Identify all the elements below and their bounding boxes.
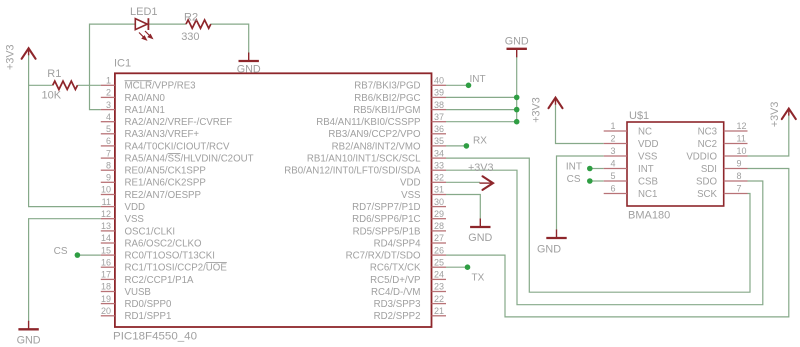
wire +3V3 to R1 junction and IC1 VDD pin 11 xyxy=(29,54,101,207)
wire GND rail vertical (top right) xyxy=(516,57,518,122)
pin 4 INT xyxy=(604,168,627,170)
svg-text:RB1/AN10/INT1/SCK/SCL: RB1/AN10/INT1/SCK/SCL xyxy=(307,154,421,165)
pin 11 VDD xyxy=(101,206,115,208)
svg-text:37: 37 xyxy=(434,112,444,122)
svg-text:RA5/AN4/SS/HLVDIN/C2OUT: RA5/AN4/SS/HLVDIN/C2OUT xyxy=(125,154,254,165)
svg-text:GND: GND xyxy=(17,335,41,347)
power +3V3 at U$1 VDDIO xyxy=(769,102,796,128)
svg-text:VDD: VDD xyxy=(125,202,145,213)
svg-text:28: 28 xyxy=(434,221,444,231)
svg-text:5: 5 xyxy=(106,124,111,134)
svg-text:18: 18 xyxy=(101,282,111,292)
resistor R1 10K xyxy=(42,68,78,102)
svg-text:RA1/AN1: RA1/AN1 xyxy=(125,105,165,116)
svg-text:22: 22 xyxy=(434,294,444,304)
pin 2 RA0/AN0 xyxy=(101,96,115,98)
svg-text:RA3/AN3/VREF+: RA3/AN3/VREF+ xyxy=(125,129,200,140)
svg-text:10: 10 xyxy=(737,146,747,156)
svg-text:36: 36 xyxy=(434,124,444,134)
svg-text:RB5/KBI1/PGM: RB5/KBI1/PGM xyxy=(353,105,420,116)
svg-text:RB4/AN11/KBI0/CSSPP: RB4/AN11/KBI0/CSSPP xyxy=(316,117,420,128)
svg-text:NC: NC xyxy=(638,126,652,137)
svg-text:4: 4 xyxy=(610,159,615,169)
svg-text:VSS: VSS xyxy=(401,190,421,201)
pin 30 RD7/SPP7/P1D xyxy=(432,206,447,208)
pin 6 RA4/T0CKI/CIOUT/RCV xyxy=(101,145,115,147)
wire +3V3 junction to R1 left terminal xyxy=(29,84,53,86)
svg-text:16: 16 xyxy=(101,257,111,267)
ground GND at U$1 VSS xyxy=(537,230,567,256)
pin 13 OSC1/CLKI xyxy=(101,230,115,232)
pin 23 RC4/D-/VM xyxy=(432,291,447,293)
wire LED1 cathode to R2 xyxy=(149,23,186,25)
pin 9 SDI xyxy=(724,168,748,170)
svg-text:SDO: SDO xyxy=(696,176,717,187)
svg-text:10K: 10K xyxy=(42,90,62,102)
pin 3 VSS xyxy=(604,155,627,157)
svg-text:8: 8 xyxy=(737,171,742,181)
svg-text:12: 12 xyxy=(737,121,747,131)
pin 10 VDDIO xyxy=(724,155,748,157)
svg-text:20: 20 xyxy=(101,306,111,316)
power +3V3 top left xyxy=(5,44,36,70)
svg-text:VSS: VSS xyxy=(638,151,658,162)
svg-text:7: 7 xyxy=(106,148,111,158)
svg-text:CS: CS xyxy=(567,174,581,185)
wire IC1 pin 3 RA1 to LED1 anode xyxy=(90,24,136,110)
svg-text:RB7/BKI3/PGD: RB7/BKI3/PGD xyxy=(354,81,420,92)
pin 26 RC7/RX/DT/SDO xyxy=(432,254,447,256)
svg-text:11: 11 xyxy=(737,134,746,144)
node CS at IC1 pin 15 xyxy=(54,246,81,258)
svg-text:VUSB: VUSB xyxy=(125,287,151,298)
svg-text:8: 8 xyxy=(106,160,111,170)
svg-text:MCLR/VPP/RE3: MCLR/VPP/RE3 xyxy=(125,81,196,92)
svg-text:VDDIO: VDDIO xyxy=(686,151,717,162)
svg-text:RA4/T0CKI/CIOUT/RCV: RA4/T0CKI/CIOUT/RCV xyxy=(125,141,231,152)
wire net CS at U$1 pin 5 CSB xyxy=(590,180,604,182)
svg-text:RD2/SPP2: RD2/SPP2 xyxy=(374,311,421,322)
pin 40 RB7/BKI3/PGD xyxy=(432,84,447,86)
pin 8 SDO xyxy=(724,180,748,182)
svg-text:RC4/D-/VM: RC4/D-/VM xyxy=(371,287,421,298)
svg-text:RD6/SPP6/P1C: RD6/SPP6/P1C xyxy=(352,214,420,225)
ground GND under R2 xyxy=(237,53,261,76)
svg-text:7: 7 xyxy=(737,184,742,194)
overline MCLR pin 1 xyxy=(125,80,152,82)
svg-text:TX: TX xyxy=(472,273,485,284)
pin 10 RE2/AN7/OESPP xyxy=(101,194,115,196)
svg-text:39: 39 xyxy=(434,88,444,98)
svg-text:VSS: VSS xyxy=(125,214,145,225)
IC U$1 BMA180 xyxy=(604,110,748,222)
svg-text:330: 330 xyxy=(181,31,199,43)
svg-text:RD4/SPP4: RD4/SPP4 xyxy=(374,238,421,249)
svg-text:RX: RX xyxy=(473,136,487,147)
svg-text:1: 1 xyxy=(106,76,111,86)
wire net RX at IC1 pin 35 xyxy=(446,145,466,147)
svg-text:OSC1/CLKI: OSC1/CLKI xyxy=(125,226,176,237)
pin 17 RC2/CCP1/P1A xyxy=(101,278,115,280)
svg-text:3: 3 xyxy=(610,146,615,156)
power +3V3 at U$1 VDD xyxy=(531,97,563,123)
svg-text:RD3/SPP3: RD3/SPP3 xyxy=(374,299,421,310)
svg-text:RD7/SPP7/P1D: RD7/SPP7/P1D xyxy=(352,202,420,213)
pin 9 RE1/AN6/CK2SPP xyxy=(101,181,115,183)
svg-text:32: 32 xyxy=(434,173,444,183)
svg-text:2: 2 xyxy=(106,88,111,98)
svg-text:RE1/AN6/CK2SPP: RE1/AN6/CK2SPP xyxy=(125,178,206,189)
svg-text:NC1: NC1 xyxy=(638,189,657,200)
LED LED1 xyxy=(130,6,158,40)
pin 1 NC xyxy=(604,130,627,132)
svg-text:17: 17 xyxy=(101,270,111,280)
svg-text:RD1/SPP1: RD1/SPP1 xyxy=(125,311,172,322)
svg-text:3: 3 xyxy=(106,100,111,110)
svg-text:+3V3: +3V3 xyxy=(5,44,17,70)
svg-text:RB0/AN12/INT0/LFT0/SDI/SDA: RB0/AN12/INT0/LFT0/SDI/SDA xyxy=(284,166,421,177)
pin 5 RA3/AN3/VREF+ xyxy=(101,133,115,135)
svg-text:INT: INT xyxy=(638,164,654,175)
svg-text:6: 6 xyxy=(610,184,615,194)
pin 12 NC3 xyxy=(724,130,748,132)
svg-text:33: 33 xyxy=(434,160,444,170)
svg-text:GND: GND xyxy=(468,232,492,244)
svg-text:VDD: VDD xyxy=(638,139,658,150)
svg-text:RA0/AN0: RA0/AN0 xyxy=(125,93,166,104)
pin 20 RD1/SPP1 xyxy=(101,315,115,317)
svg-text:27: 27 xyxy=(434,233,444,243)
pin 11 NC2 xyxy=(724,143,748,145)
svg-text:RA6/OSC2/CLKO: RA6/OSC2/CLKO xyxy=(125,238,202,249)
svg-text:RB6/KBI2/PGC: RB6/KBI2/PGC xyxy=(354,93,420,104)
pin 27 RD4/SPP4 xyxy=(432,242,447,244)
wire net INT at U$1 pin 4 xyxy=(590,168,604,170)
svg-text:26: 26 xyxy=(434,245,444,255)
junction at pin 38 GND rail xyxy=(514,107,520,113)
wire IC1 pin 38 to GND rail xyxy=(446,109,517,111)
pin 16 RC1/T1OSI/CCP2/UOE xyxy=(101,266,115,268)
pin 35 RB2/AN8/INT2/VMO xyxy=(432,145,447,147)
svg-text:U$1: U$1 xyxy=(629,110,649,122)
svg-text:14: 14 xyxy=(101,233,111,243)
svg-text:CS: CS xyxy=(54,246,68,257)
svg-text:RD0/SPP0: RD0/SPP0 xyxy=(125,299,172,310)
svg-text:INT: INT xyxy=(470,74,486,85)
junction at pin 39 GND rail xyxy=(514,95,520,101)
ground GND at IC1 pin 31 xyxy=(468,219,492,245)
IC IC1 PIC18F4550_40 xyxy=(101,58,446,343)
svg-text:23: 23 xyxy=(434,282,444,292)
wire IC1 VSS pin 12 to GND xyxy=(29,219,101,322)
svg-text:+3V3: +3V3 xyxy=(468,162,494,174)
svg-text:10: 10 xyxy=(101,185,111,195)
pin 37 RB4/AN11/KBI0/CSSPP xyxy=(432,121,447,123)
wire R2 to GND xyxy=(211,24,249,53)
pin 38 RB5/KBI1/PGM xyxy=(432,109,447,111)
svg-text:34: 34 xyxy=(434,148,444,158)
ground GND top right rail xyxy=(505,35,529,57)
pin 1 MCLR/VPP/RE3 xyxy=(101,84,115,86)
pin 28 RD5/SPP5/P1B xyxy=(432,230,447,232)
pin 2 VDD xyxy=(604,143,627,145)
junction at pin 37 GND rail xyxy=(514,119,520,125)
svg-text:11: 11 xyxy=(102,197,111,207)
pin 34 RB1/AN10/INT1/SCK/SCL xyxy=(432,157,447,159)
pin 4 RA2/AN2/VREF-/CVREF xyxy=(101,121,115,123)
wire IC1 VSS pin 31 to GND xyxy=(446,195,480,220)
pin 33 RB0/AN12/INT0/LFT0/SDI/SDA xyxy=(432,169,447,171)
svg-text:31: 31 xyxy=(434,185,444,195)
svg-text:RC1/T1OSI/CCP2/UOE: RC1/T1OSI/CCP2/UOE xyxy=(125,263,228,274)
wire net TX at IC1 pin 25 xyxy=(446,266,468,268)
svg-text:13: 13 xyxy=(101,221,111,231)
svg-text:30: 30 xyxy=(434,197,444,207)
svg-text:35: 35 xyxy=(434,136,444,146)
pin 8 RE0/AN5/CK1SPP xyxy=(101,169,115,171)
pin 7 RA5/AN4/SS/HLVDIN/C2OUT xyxy=(101,157,115,159)
svg-text:RC6/TX/CK: RC6/TX/CK xyxy=(370,263,421,274)
svg-text:21: 21 xyxy=(434,306,444,316)
svg-text:4: 4 xyxy=(106,112,111,122)
wire R1 right terminal to IC1 pin 1 MCLR xyxy=(78,84,101,86)
svg-text:19: 19 xyxy=(101,294,111,304)
svg-text:RA2/AN2/VREF-/CVREF: RA2/AN2/VREF-/CVREF xyxy=(125,117,233,128)
pin 39 RB6/KBI2/PGC xyxy=(432,96,447,98)
node INT at U$1 pin 4 xyxy=(566,162,593,173)
wire IC1 VDD pin 32 to +3V3 xyxy=(446,181,480,183)
node CS at U$1 pin 5 xyxy=(567,174,593,185)
node INT at IC1 pin 40 xyxy=(466,74,486,88)
wire U$1 VSS pin 3 to GND xyxy=(557,156,604,230)
svg-text:NC2: NC2 xyxy=(698,139,717,150)
wire SDI net: IC1 pin 33 to U$1 pin 8 SDO xyxy=(446,170,763,305)
wire IC1 pin 39 to GND rail xyxy=(446,96,517,98)
svg-text:29: 29 xyxy=(434,209,444,219)
svg-text:INT: INT xyxy=(566,162,582,173)
wire IC1 pin 37 to GND rail xyxy=(446,121,517,123)
svg-text:25: 25 xyxy=(434,257,444,267)
svg-text:BMA180: BMA180 xyxy=(628,210,670,222)
svg-text:RC7/RX/DT/SDO: RC7/RX/DT/SDO xyxy=(346,251,421,262)
svg-text:+3V3: +3V3 xyxy=(531,97,543,123)
overline UOE pin 16 xyxy=(206,262,227,264)
svg-text:1: 1 xyxy=(610,121,615,131)
svg-text:40: 40 xyxy=(434,76,444,86)
svg-text:24: 24 xyxy=(434,270,444,280)
pin 36 RB3/AN9/CCP2/VPO xyxy=(432,133,447,135)
svg-text:SCK: SCK xyxy=(697,189,717,200)
pin 31 VSS xyxy=(432,194,447,196)
svg-text:RE2/AN7/OESPP: RE2/AN7/OESPP xyxy=(125,190,201,201)
svg-text:9: 9 xyxy=(106,173,111,183)
svg-text:+3V3: +3V3 xyxy=(769,102,781,128)
pin 18 VUSB xyxy=(101,291,115,293)
wire SDO net: IC1 pin 26 to U$1 pin 9 SDI xyxy=(446,169,789,317)
svg-text:R1: R1 xyxy=(47,68,61,80)
pin 32 VDD xyxy=(432,181,447,183)
svg-text:RC2/CCP1/P1A: RC2/CCP1/P1A xyxy=(125,275,194,286)
pin 12 VSS xyxy=(101,218,115,220)
svg-text:PIC18F4550_40: PIC18F4550_40 xyxy=(113,331,197,343)
pin 24 RC5/D+/VP xyxy=(432,278,447,280)
svg-text:GND: GND xyxy=(505,35,529,47)
power +3V3 at IC1 VDD pin 32 (pointing right) xyxy=(468,162,494,190)
svg-text:IC1: IC1 xyxy=(114,58,131,70)
svg-text:RD5/SPP5/P1B: RD5/SPP5/P1B xyxy=(353,226,421,237)
wire SCK net: IC1 pin 34 to U$1 pin 7 SCK xyxy=(446,158,750,292)
pin 7 SCK xyxy=(724,193,748,195)
wire net CS to IC1 pin 15 xyxy=(77,254,100,256)
pin 29 RD6/SPP6/P1C xyxy=(432,218,447,220)
wire U$1 VDDIO pin 10 to +3V3 xyxy=(748,114,789,156)
svg-text:RE0/AN5/CK1SPP: RE0/AN5/CK1SPP xyxy=(125,166,206,177)
svg-text:RB3/AN9/CCP2/VPO: RB3/AN9/CCP2/VPO xyxy=(328,129,421,140)
svg-text:RC0/T1OSO/T13CKI: RC0/T1OSO/T13CKI xyxy=(125,251,215,262)
wire net INT at IC1 pin 40 xyxy=(446,84,469,86)
pin 15 RC0/T1OSO/T13CKI xyxy=(101,254,115,256)
ground GND bottom left xyxy=(17,321,41,347)
svg-text:R2: R2 xyxy=(184,12,198,24)
pin 22 RD3/SPP3 xyxy=(432,303,447,305)
node RX at IC1 pin 35 xyxy=(464,136,488,149)
svg-text:RC5/D+/VP: RC5/D+/VP xyxy=(370,275,420,286)
pin 6 NC1 xyxy=(604,193,627,195)
svg-text:GND: GND xyxy=(537,244,561,256)
wire +3V3 to U$1 VDD pin 2 xyxy=(556,104,604,144)
pin 3 RA1/AN1 xyxy=(101,109,115,111)
svg-text:SDI: SDI xyxy=(701,164,717,175)
svg-text:12: 12 xyxy=(101,209,111,219)
svg-text:NC3: NC3 xyxy=(698,126,717,137)
pin 5 CSB xyxy=(604,180,627,182)
svg-text:CSB: CSB xyxy=(638,176,658,187)
svg-text:38: 38 xyxy=(434,100,444,110)
svg-text:RB2/AN8/INT2/VMO: RB2/AN8/INT2/VMO xyxy=(332,141,421,152)
svg-text:2: 2 xyxy=(610,134,615,144)
pin 21 RD2/SPP2 xyxy=(432,315,447,317)
svg-text:5: 5 xyxy=(610,171,615,181)
overline SS pin 7 xyxy=(168,153,181,155)
svg-text:LED1: LED1 xyxy=(130,6,158,18)
pin 14 RA6/OSC2/CLKO xyxy=(101,242,115,244)
resistor R2 330 xyxy=(181,12,211,44)
svg-text:VDD: VDD xyxy=(400,178,420,189)
svg-text:6: 6 xyxy=(106,136,111,146)
svg-text:15: 15 xyxy=(101,245,111,255)
pin 19 RD0/SPP0 xyxy=(101,303,115,305)
pin 25 RC6/TX/CK xyxy=(432,266,447,268)
svg-text:GND: GND xyxy=(237,64,261,76)
node TX at IC1 pin 25 xyxy=(465,264,485,283)
svg-text:9: 9 xyxy=(737,159,742,169)
